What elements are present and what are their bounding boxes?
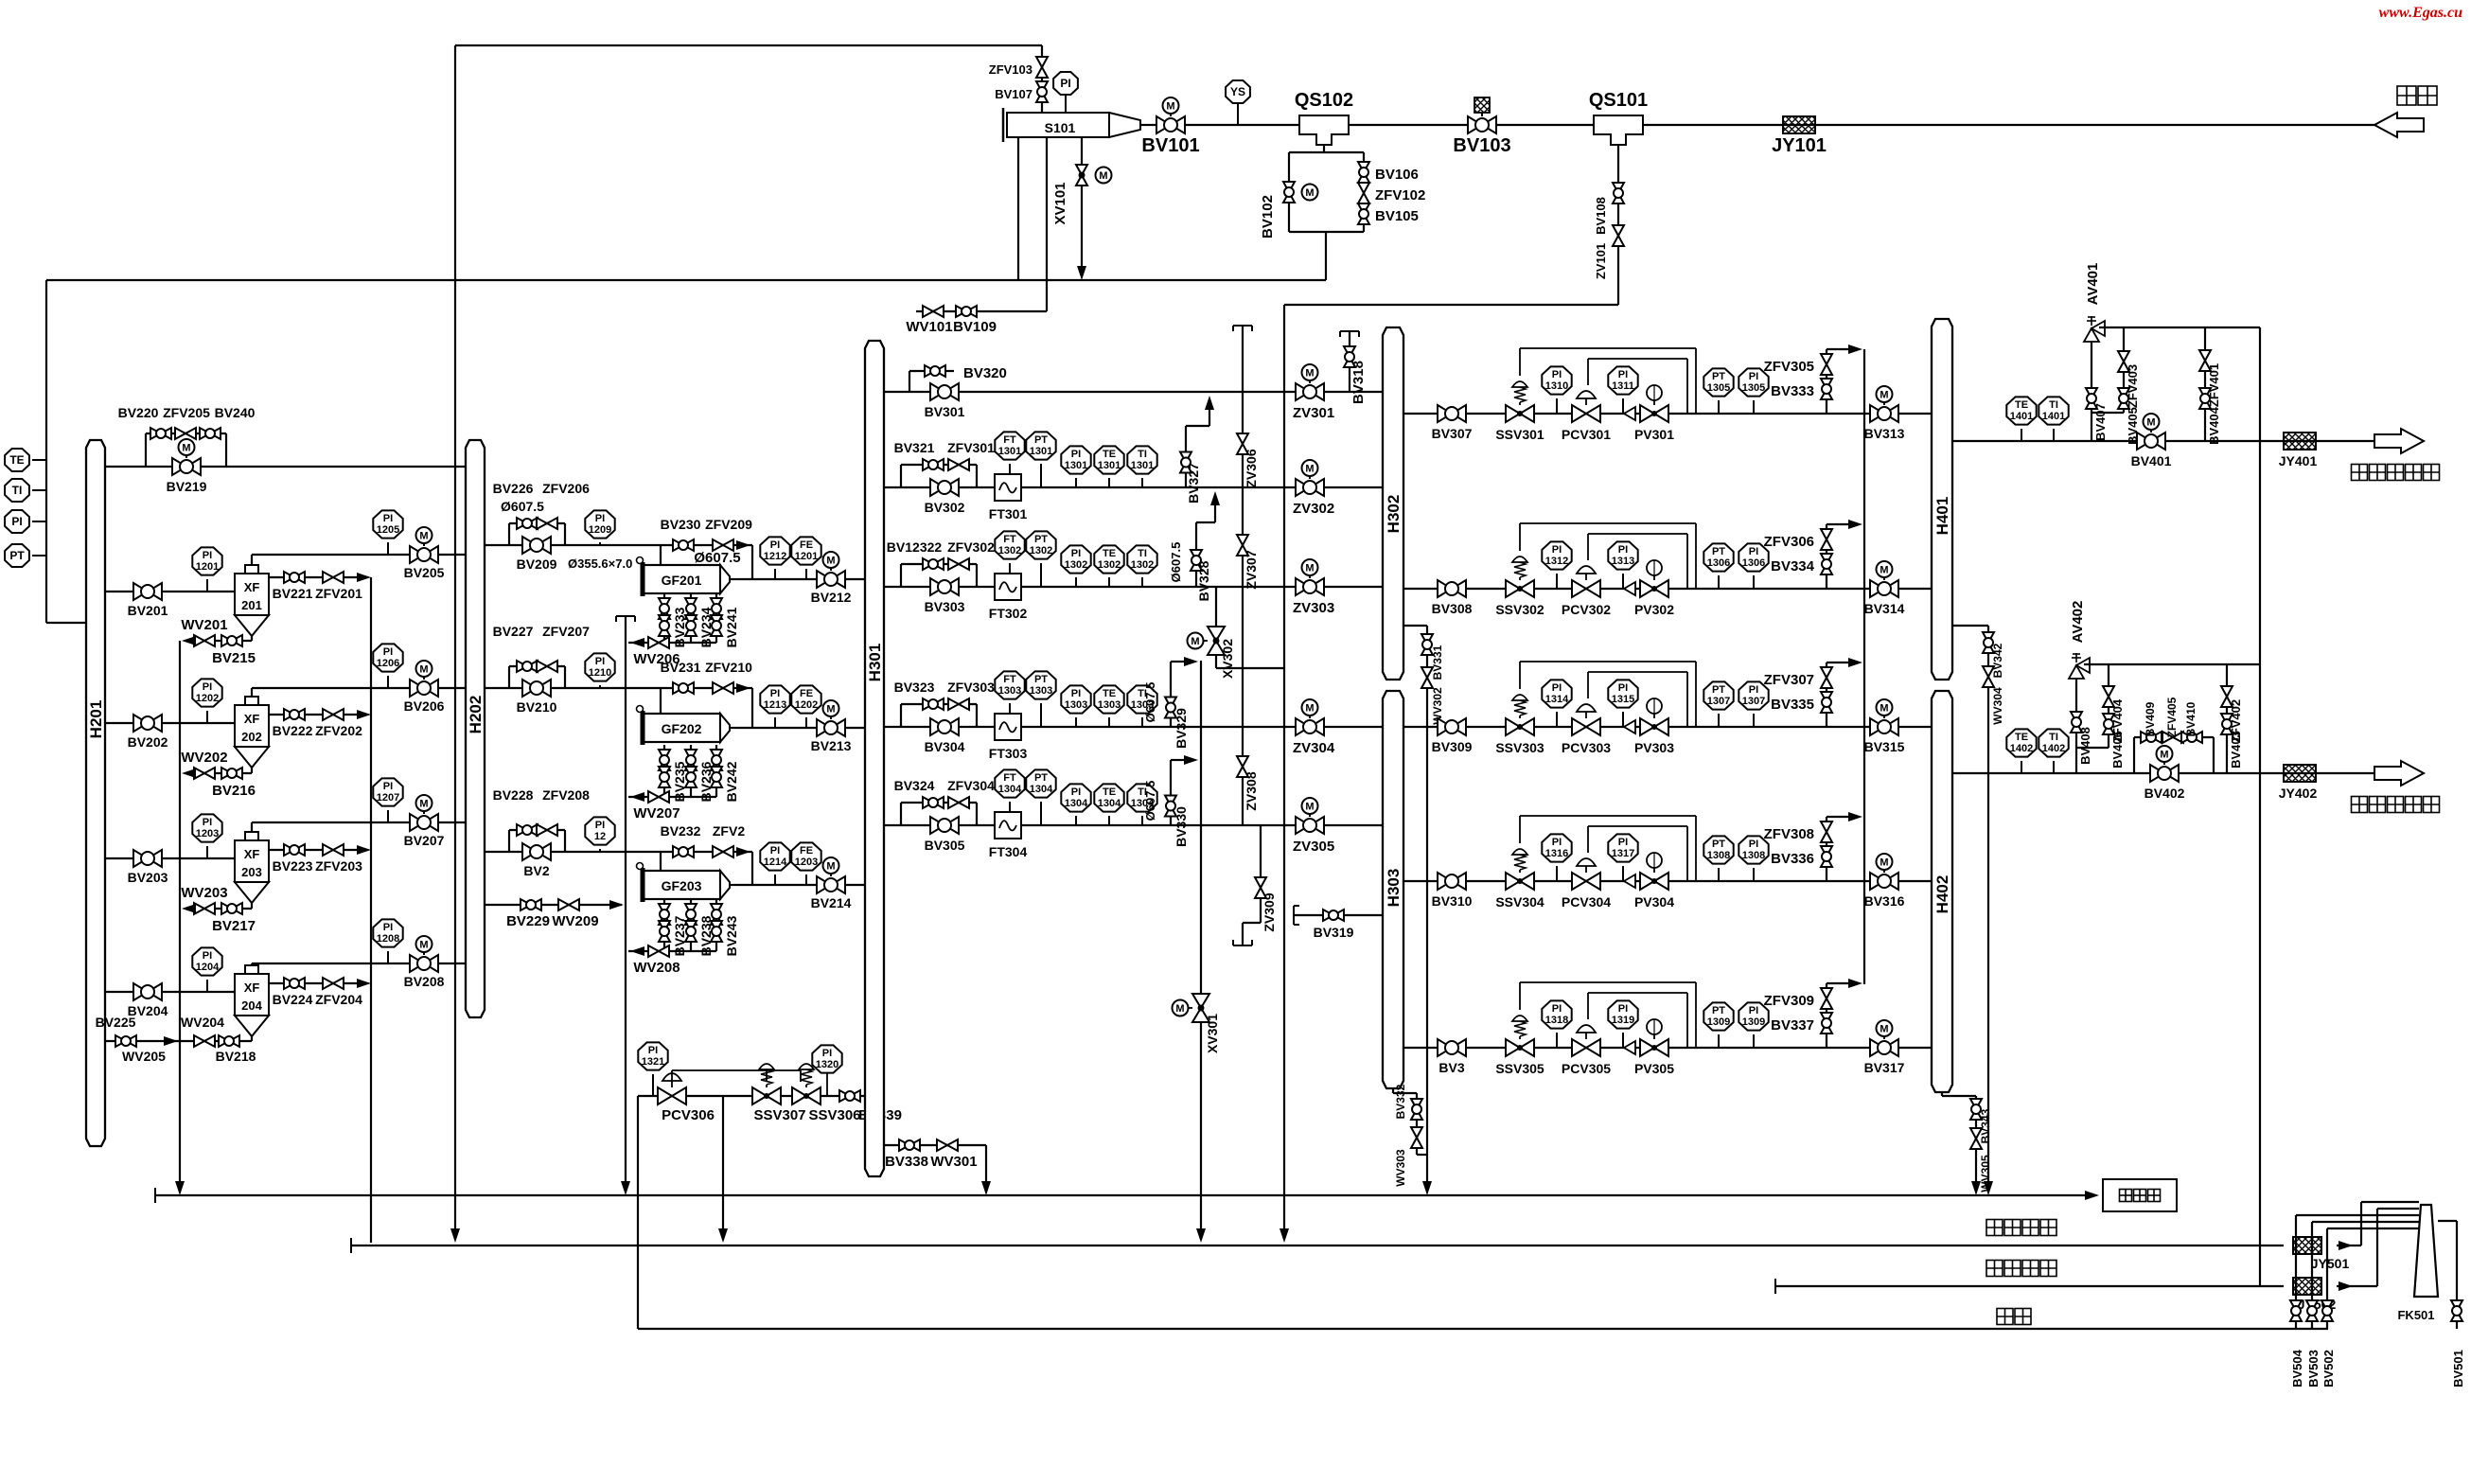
svg-text:PI: PI — [383, 646, 393, 658]
svg-text:PI: PI — [770, 539, 780, 551]
svg-text:M: M — [1305, 368, 1314, 380]
svg-text:1304: 1304 — [1098, 798, 1121, 809]
svg-text:PCV304: PCV304 — [1562, 894, 1611, 910]
svg-text:ZFV201: ZFV201 — [315, 586, 362, 601]
svg-text:1304: 1304 — [998, 784, 1022, 795]
svg-text:BV321: BV321 — [894, 440, 935, 455]
svg-text:FT: FT — [1003, 674, 1016, 685]
svg-text:BV315: BV315 — [1864, 739, 1905, 754]
svg-text:BV109: BV109 — [953, 319, 997, 335]
svg-text:PI: PI — [822, 1048, 832, 1059]
svg-text:1212: 1212 — [764, 551, 786, 562]
svg-text:XF: XF — [244, 580, 260, 594]
svg-text:PI: PI — [1060, 77, 1070, 90]
svg-text:WV209: WV209 — [552, 913, 598, 929]
svg-text:BV314: BV314 — [1864, 601, 1905, 616]
svg-text:1206: 1206 — [377, 658, 399, 669]
svg-text:FT301: FT301 — [989, 506, 1028, 521]
svg-text:1305: 1305 — [1742, 382, 1765, 394]
svg-text:WV305: WV305 — [1979, 1155, 1992, 1192]
svg-text:BV212: BV212 — [811, 590, 852, 605]
svg-text:BV103: BV103 — [1453, 135, 1510, 156]
svg-text:FE: FE — [800, 539, 813, 551]
svg-text:ZV304: ZV304 — [1293, 740, 1335, 756]
svg-text:BV320: BV320 — [963, 365, 1007, 381]
svg-text:1301: 1301 — [1098, 460, 1121, 471]
svg-text:Ø607.5: Ø607.5 — [694, 550, 740, 566]
svg-text:1401: 1401 — [2010, 411, 2033, 422]
svg-text:Ø355.6×7.0: Ø355.6×7.0 — [568, 556, 632, 571]
svg-text:M: M — [1880, 565, 1888, 576]
svg-text:PCV306: PCV306 — [662, 1107, 715, 1123]
svg-text:BV12322: BV12322 — [887, 539, 943, 555]
svg-text:SSV303: SSV303 — [1495, 740, 1544, 755]
svg-text:BV242: BV242 — [724, 761, 739, 802]
svg-text:H301: H301 — [866, 644, 884, 682]
svg-text:BV209: BV209 — [517, 556, 557, 572]
svg-text:1302: 1302 — [1098, 559, 1121, 571]
svg-text:M: M — [1305, 563, 1314, 574]
svg-text:WV205: WV205 — [122, 1049, 166, 1064]
svg-text:M: M — [182, 443, 190, 454]
svg-text:ZV306: ZV306 — [1244, 449, 1259, 487]
svg-text:1301: 1301 — [1131, 460, 1154, 471]
svg-text:TE: TE — [1103, 688, 1116, 699]
svg-text:BV105: BV105 — [1375, 208, 1419, 224]
svg-text:M: M — [1166, 101, 1174, 113]
svg-text:BV243: BV243 — [724, 915, 739, 956]
svg-text:BV304: BV304 — [925, 739, 965, 754]
svg-text:1214: 1214 — [764, 857, 787, 868]
svg-text:JY401: JY401 — [2279, 453, 2318, 468]
svg-text:1319: 1319 — [1612, 1015, 1634, 1026]
svg-text:ZFV307: ZFV307 — [1764, 672, 1814, 688]
svg-text:PT: PT — [1712, 546, 1725, 557]
svg-text:BV329: BV329 — [1174, 708, 1189, 749]
svg-text:1301: 1301 — [998, 446, 1021, 457]
svg-text:PI: PI — [770, 688, 780, 699]
svg-text:BV331: BV331 — [1431, 645, 1444, 680]
svg-text:JY402: JY402 — [2279, 786, 2318, 801]
svg-text:BV221: BV221 — [273, 586, 313, 601]
svg-text:1207: 1207 — [377, 792, 399, 804]
svg-text:BV328: BV328 — [1196, 560, 1211, 601]
svg-text:BV334: BV334 — [1771, 558, 1815, 574]
svg-text:1308: 1308 — [1707, 850, 1730, 861]
svg-text:BV332: BV332 — [1394, 1084, 1407, 1119]
svg-text:1301: 1301 — [1065, 460, 1087, 471]
svg-text:PI: PI — [1552, 1003, 1562, 1015]
svg-text:ZV305: ZV305 — [1293, 839, 1334, 855]
svg-text:1305: 1305 — [1707, 382, 1730, 394]
svg-text:XF: XF — [244, 980, 260, 995]
svg-text:M: M — [1099, 170, 1107, 182]
svg-text:BV206: BV206 — [404, 698, 445, 714]
svg-text:M: M — [2146, 417, 2155, 429]
svg-text:PI: PI — [1071, 786, 1081, 798]
svg-text:1303: 1303 — [1030, 685, 1052, 697]
svg-text:BV301: BV301 — [925, 404, 965, 419]
svg-text:ZV101: ZV101 — [1594, 243, 1608, 279]
svg-text:1312: 1312 — [1545, 556, 1568, 567]
svg-text:BV302: BV302 — [925, 500, 965, 515]
svg-text:1315: 1315 — [1612, 694, 1634, 705]
svg-text:BV318: BV318 — [1350, 361, 1367, 404]
svg-text:PI: PI — [11, 515, 22, 528]
svg-text:SSV304: SSV304 — [1495, 894, 1544, 910]
svg-text:H303: H303 — [1385, 869, 1403, 908]
svg-text:PI: PI — [383, 922, 393, 933]
svg-text:BV307: BV307 — [1432, 426, 1473, 441]
svg-text:1202: 1202 — [196, 693, 219, 704]
svg-text:BV407: BV407 — [2093, 403, 2108, 441]
svg-text:1202: 1202 — [795, 699, 818, 711]
svg-text:BV240: BV240 — [215, 405, 256, 420]
svg-text:BV404: BV404 — [2207, 406, 2221, 445]
svg-text:BV219: BV219 — [167, 479, 207, 494]
svg-text:BV309: BV309 — [1432, 739, 1473, 754]
svg-text:PT: PT — [9, 549, 25, 562]
svg-text:BV213: BV213 — [811, 738, 852, 753]
svg-text:BV216: BV216 — [212, 783, 256, 799]
svg-text:1213: 1213 — [764, 699, 786, 711]
svg-text:PI: PI — [203, 681, 212, 693]
svg-text:PI: PI — [1552, 682, 1562, 694]
svg-text:PI: PI — [1618, 544, 1628, 556]
svg-text:PT: PT — [1712, 684, 1725, 696]
svg-text:WV101: WV101 — [906, 319, 952, 335]
svg-text:GF203: GF203 — [662, 878, 702, 893]
svg-text:PT: PT — [1712, 371, 1725, 382]
svg-text:PV303: PV303 — [1634, 740, 1674, 755]
svg-text:BV203: BV203 — [128, 870, 168, 885]
svg-text:M: M — [419, 531, 428, 542]
svg-text:TE: TE — [1103, 786, 1116, 798]
svg-text:XV302: XV302 — [1220, 639, 1235, 679]
svg-text:WV303: WV303 — [1394, 1149, 1407, 1187]
svg-text:PI: PI — [595, 820, 605, 831]
svg-text:ZFV306: ZFV306 — [1764, 534, 1814, 550]
svg-text:BV214: BV214 — [811, 895, 852, 910]
svg-text:ZV302: ZV302 — [1293, 501, 1334, 517]
svg-text:BV227: BV227 — [493, 624, 534, 639]
svg-text:1303: 1303 — [1098, 699, 1121, 711]
svg-text:1320: 1320 — [816, 1059, 838, 1070]
svg-text:FT304: FT304 — [989, 844, 1028, 859]
svg-text:PV305: PV305 — [1634, 1061, 1674, 1076]
svg-text:QS102: QS102 — [1295, 90, 1353, 111]
svg-text:S101: S101 — [1045, 120, 1076, 135]
svg-text:PI: PI — [1618, 1003, 1628, 1015]
svg-text:ZFV205: ZFV205 — [163, 405, 210, 420]
svg-text:BV405: BV405 — [2126, 407, 2140, 445]
svg-text:BV324: BV324 — [894, 778, 935, 793]
svg-text:ZFV305: ZFV305 — [1764, 359, 1814, 375]
svg-text:BV310: BV310 — [1432, 893, 1473, 909]
svg-text:M: M — [1880, 390, 1888, 401]
svg-text:PI: PI — [1618, 682, 1628, 694]
svg-text:YS: YS — [1230, 85, 1245, 98]
svg-text:PI: PI — [1552, 369, 1562, 380]
svg-text:H402: H402 — [1933, 875, 1951, 914]
svg-text:1321: 1321 — [642, 1056, 664, 1068]
svg-text:ZFV210: ZFV210 — [705, 660, 752, 675]
svg-text:ZFV102: ZFV102 — [1375, 187, 1425, 203]
svg-text:1209: 1209 — [589, 524, 611, 536]
svg-text:1311: 1311 — [1612, 380, 1634, 392]
svg-text:BV337: BV337 — [1771, 1017, 1814, 1033]
svg-text:1309: 1309 — [1707, 1016, 1730, 1028]
svg-text:1303: 1303 — [998, 685, 1021, 697]
svg-text:WV202: WV202 — [181, 750, 227, 766]
svg-text:M: M — [419, 940, 428, 951]
svg-text:BV504: BV504 — [2290, 1349, 2304, 1387]
svg-text:SSV302: SSV302 — [1495, 602, 1544, 617]
svg-text:BV215: BV215 — [212, 650, 256, 666]
svg-text:ZFV405: ZFV405 — [2165, 697, 2179, 737]
svg-text:BV2: BV2 — [523, 863, 549, 878]
svg-text:1302: 1302 — [1131, 559, 1154, 571]
svg-text:M: M — [419, 799, 428, 810]
svg-text:TI: TI — [2049, 399, 2058, 411]
svg-text:BV230: BV230 — [661, 517, 701, 532]
svg-text:1307: 1307 — [1707, 696, 1730, 707]
svg-text:FT: FT — [1003, 534, 1016, 545]
svg-text:ZFV204: ZFV204 — [315, 992, 362, 1007]
svg-text:ZFV304: ZFV304 — [947, 778, 995, 793]
svg-text:PI: PI — [1618, 369, 1628, 380]
svg-text:PV304: PV304 — [1634, 894, 1674, 910]
svg-text:PCV302: PCV302 — [1562, 602, 1611, 617]
svg-text:BV338: BV338 — [885, 1154, 928, 1170]
svg-text:M: M — [1305, 464, 1314, 475]
svg-text:BV403: BV403 — [2229, 731, 2243, 768]
svg-text:TE: TE — [9, 453, 24, 467]
svg-text:ZFV301: ZFV301 — [947, 440, 995, 455]
svg-text:1307: 1307 — [1742, 696, 1765, 707]
svg-text:M: M — [2160, 750, 2168, 761]
svg-text:BV226: BV226 — [493, 481, 534, 496]
svg-text:GF201: GF201 — [662, 573, 702, 588]
svg-text:WV208: WV208 — [633, 960, 680, 976]
svg-text:ZFV303: ZFV303 — [947, 680, 995, 695]
svg-text:BV208: BV208 — [404, 974, 445, 989]
svg-text:Ø607.5: Ø607.5 — [1169, 542, 1183, 583]
svg-text:BV201: BV201 — [128, 603, 168, 618]
svg-text:1308: 1308 — [1742, 850, 1765, 861]
svg-text:1210: 1210 — [589, 667, 611, 679]
svg-text:1402: 1402 — [2042, 743, 2065, 754]
svg-text:BV210: BV210 — [517, 699, 557, 715]
svg-text:BV207: BV207 — [404, 833, 445, 848]
svg-text:BV218: BV218 — [216, 1049, 256, 1064]
svg-text:BV224: BV224 — [273, 992, 313, 1007]
svg-text:PI: PI — [595, 656, 605, 667]
svg-text:TE: TE — [1103, 548, 1116, 559]
svg-text:BV228: BV228 — [493, 787, 534, 803]
svg-text:PCV305: PCV305 — [1562, 1061, 1611, 1076]
svg-text:PI: PI — [595, 513, 605, 524]
svg-text:www.Egas.cu: www.Egas.cu — [2379, 5, 2462, 21]
svg-text:SSV306: SSV306 — [808, 1107, 860, 1123]
svg-text:M: M — [419, 664, 428, 676]
svg-text:202: 202 — [241, 730, 262, 744]
svg-text:PT: PT — [1712, 1005, 1725, 1016]
svg-text:PI: PI — [203, 950, 212, 962]
svg-text:M: M — [1880, 857, 1888, 869]
svg-text:PI: PI — [383, 513, 393, 524]
svg-text:PI: PI — [1749, 371, 1758, 382]
svg-text:TI: TI — [12, 484, 23, 497]
svg-text:BV205: BV205 — [404, 565, 445, 580]
svg-text:PI: PI — [648, 1045, 658, 1056]
svg-text:WV207: WV207 — [633, 805, 680, 821]
svg-text:PI: PI — [1552, 544, 1562, 556]
svg-text:TE: TE — [1103, 449, 1116, 460]
svg-text:BV241: BV241 — [724, 607, 739, 647]
svg-text:TE: TE — [2015, 399, 2028, 411]
svg-text:M: M — [1175, 1003, 1184, 1015]
svg-text:TI: TI — [2049, 732, 2058, 743]
svg-text:BV220: BV220 — [118, 405, 159, 420]
svg-text:BV106: BV106 — [1375, 167, 1419, 183]
svg-text:BV223: BV223 — [273, 858, 313, 874]
svg-text:PT: PT — [1034, 534, 1048, 545]
svg-text:ZFV206: ZFV206 — [542, 481, 590, 496]
svg-text:ZFV203: ZFV203 — [315, 858, 362, 874]
svg-text:BV406: BV406 — [2110, 731, 2125, 768]
svg-text:FT303: FT303 — [989, 746, 1028, 761]
svg-text:SSV301: SSV301 — [1495, 427, 1544, 442]
svg-text:BV410: BV410 — [2184, 701, 2197, 736]
svg-text:ZFV308: ZFV308 — [1764, 826, 1814, 842]
svg-text:BV225: BV225 — [96, 1015, 136, 1030]
svg-text:1201: 1201 — [196, 561, 219, 573]
svg-text:BV3: BV3 — [1438, 1060, 1464, 1075]
svg-text:PI: PI — [203, 817, 212, 828]
svg-text:PI: PI — [1071, 548, 1081, 559]
svg-text:H302: H302 — [1385, 495, 1403, 534]
svg-text:BV108: BV108 — [1594, 197, 1608, 235]
svg-text:WV203: WV203 — [181, 885, 227, 901]
svg-text:1208: 1208 — [377, 933, 399, 945]
svg-text:BV503: BV503 — [2306, 1350, 2321, 1387]
svg-text:PT: PT — [1034, 772, 1048, 784]
svg-text:203: 203 — [241, 865, 262, 879]
svg-text:BV217: BV217 — [212, 918, 256, 934]
svg-text:BV501: BV501 — [2451, 1350, 2465, 1387]
svg-text:XV101: XV101 — [1052, 182, 1068, 224]
svg-text:1314: 1314 — [1545, 694, 1569, 705]
svg-text:BV323: BV323 — [894, 680, 935, 695]
svg-text:M: M — [1880, 1024, 1888, 1035]
svg-text:1304: 1304 — [1065, 798, 1088, 809]
svg-text:BV342: BV342 — [1991, 643, 2004, 678]
svg-text:1302: 1302 — [1065, 559, 1087, 571]
svg-text:ZFV207: ZFV207 — [542, 624, 590, 639]
svg-text:ZV303: ZV303 — [1293, 600, 1334, 616]
svg-text:BV502: BV502 — [2321, 1350, 2336, 1387]
svg-text:BV107: BV107 — [995, 87, 1033, 101]
svg-text:1205: 1205 — [377, 524, 399, 536]
svg-text:FT: FT — [1003, 434, 1016, 446]
svg-text:1310: 1310 — [1545, 380, 1568, 392]
svg-text:ZFV202: ZFV202 — [315, 723, 362, 738]
svg-text:1201: 1201 — [795, 551, 818, 562]
svg-text:Ø607.5: Ø607.5 — [1143, 781, 1157, 821]
svg-text:BV305: BV305 — [925, 838, 965, 853]
svg-text:1401: 1401 — [2042, 411, 2065, 422]
svg-text:201: 201 — [241, 598, 262, 612]
svg-text:TI: TI — [1138, 449, 1147, 460]
svg-text:1302: 1302 — [998, 545, 1021, 556]
svg-text:M: M — [1305, 703, 1314, 715]
svg-text:ZFV103: ZFV103 — [989, 62, 1033, 77]
svg-text:BV333: BV333 — [1771, 383, 1814, 399]
svg-text:PI: PI — [1552, 837, 1562, 848]
svg-text:ZV309: ZV309 — [1262, 892, 1277, 931]
svg-text:BV319: BV319 — [1314, 925, 1354, 940]
svg-text:BV102: BV102 — [1260, 195, 1276, 238]
svg-text:SSV307: SSV307 — [753, 1107, 805, 1123]
svg-text:BV202: BV202 — [128, 734, 168, 750]
svg-text:BV335: BV335 — [1771, 697, 1814, 713]
svg-text:XF: XF — [244, 712, 260, 726]
svg-text:BV401: BV401 — [2131, 453, 2172, 468]
svg-text:JY501: JY501 — [2311, 1256, 2350, 1271]
svg-text:1402: 1402 — [2010, 743, 2033, 754]
svg-text:BV330: BV330 — [1174, 806, 1189, 847]
svg-text:TE: TE — [2015, 732, 2028, 743]
svg-text:ZFV2: ZFV2 — [713, 823, 745, 839]
svg-text:BV229: BV229 — [506, 913, 550, 929]
svg-text:XF: XF — [244, 847, 260, 861]
svg-text:JY101: JY101 — [1772, 135, 1827, 156]
svg-text:M: M — [826, 556, 835, 567]
svg-text:PV302: PV302 — [1634, 602, 1674, 617]
svg-text:ZV301: ZV301 — [1293, 405, 1334, 421]
svg-text:PV301: PV301 — [1634, 427, 1674, 442]
svg-text:WV301: WV301 — [930, 1154, 977, 1170]
svg-text:1303: 1303 — [1065, 699, 1087, 711]
svg-text:PT: PT — [1034, 674, 1048, 685]
svg-text:Ø607.5: Ø607.5 — [1143, 682, 1157, 723]
svg-text:1306: 1306 — [1707, 557, 1730, 569]
svg-text:BV316: BV316 — [1864, 893, 1905, 909]
svg-text:BV343: BV343 — [1979, 1108, 1992, 1143]
svg-text:BV303: BV303 — [925, 599, 965, 614]
svg-text:ZFV208: ZFV208 — [542, 787, 590, 803]
svg-text:FK501: FK501 — [2397, 1308, 2434, 1322]
svg-text:PI: PI — [1071, 688, 1081, 699]
svg-text:1203: 1203 — [795, 857, 818, 868]
svg-text:M: M — [1191, 636, 1199, 647]
svg-text:BV101: BV101 — [1141, 135, 1199, 156]
svg-text:1317: 1317 — [1612, 848, 1634, 859]
svg-text:PCV301: PCV301 — [1562, 427, 1611, 442]
svg-text:BV336: BV336 — [1771, 851, 1814, 867]
svg-text:ZFV309: ZFV309 — [1764, 993, 1814, 1009]
svg-text:BV232: BV232 — [661, 823, 701, 839]
svg-text:BV402: BV402 — [2144, 786, 2185, 801]
svg-text:WV206: WV206 — [633, 651, 680, 667]
svg-text:WV304: WV304 — [1991, 687, 2004, 725]
svg-text:BV409: BV409 — [2144, 701, 2157, 736]
svg-text:BV308: BV308 — [1432, 601, 1473, 616]
svg-text:204: 204 — [241, 998, 262, 1013]
svg-text:FE: FE — [800, 688, 813, 699]
svg-text:PCV303: PCV303 — [1562, 740, 1611, 755]
